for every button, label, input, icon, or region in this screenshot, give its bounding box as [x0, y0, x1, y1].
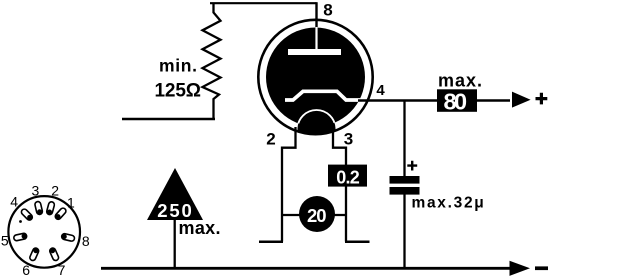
value box 0.2	[328, 165, 367, 187]
socket pin 1	[54, 207, 67, 221]
wire heater leg pin 2	[282, 127, 296, 242]
svg-text:0.2: 0.2	[336, 168, 360, 188]
wire top horizontal from resistor to tube pin 8	[210, 2, 317, 4]
svg-text:8: 8	[82, 233, 90, 249]
svg-text:4: 4	[10, 194, 18, 210]
tube heater circle (black fill clipped to bulb)	[298, 110, 336, 148]
wire pin 4 to plus output	[358, 99, 510, 101]
wire triangle to minus rail	[174, 220, 176, 268]
svg-text:2: 2	[266, 129, 275, 148]
svg-text:max.: max.	[438, 71, 482, 91]
svg-text:7: 7	[58, 262, 66, 278]
capacitor lead lower	[403, 194, 405, 268]
tube bulb outer circle	[258, 20, 372, 134]
wire heater middle horizontal	[282, 214, 346, 216]
capacitor bottom plate	[390, 187, 420, 195]
value circle 20	[299, 196, 335, 232]
tube cathode (white polyline)	[285, 91, 360, 100]
wire minus rail (bottom)	[101, 267, 510, 270]
svg-text:6: 6	[22, 262, 30, 278]
socket pin 6	[29, 247, 40, 261]
rectifier tube envelope (black disc)	[266, 28, 365, 127]
socket pin 4	[20, 208, 33, 221]
wire left stub from resistor bottom	[122, 118, 215, 121]
value box 80	[437, 89, 477, 112]
tube heater circle white arc over disc	[298, 110, 336, 148]
svg-text:max.: max.	[179, 218, 221, 238]
capacitor lead upper	[403, 100, 405, 176]
transformer HT marker triangle 250 max	[147, 168, 203, 220]
label minus terminal	[535, 266, 548, 270]
svg-text:8: 8	[323, 1, 332, 20]
tube anode bar (white)	[288, 49, 341, 55]
svg-text:4: 4	[376, 82, 385, 99]
tube anode lead inside disc (white)	[315, 27, 317, 50]
capacitor C max.32u top plate	[390, 176, 420, 184]
resistor min.125ohm	[203, 3, 221, 120]
arrow plus output	[512, 92, 531, 108]
socket pin 2	[46, 201, 55, 215]
socket pin 7	[49, 247, 60, 261]
capacitor plus mark	[407, 161, 417, 171]
svg-text:2: 2	[51, 183, 59, 199]
svg-text:20: 20	[307, 205, 327, 226]
svg-text:min.: min.	[159, 56, 197, 76]
label plus terminal	[536, 93, 548, 105]
socket key dot	[19, 220, 22, 223]
svg-text:80: 80	[444, 89, 468, 115]
octal socket base diagram	[1, 183, 90, 279]
svg-text:max.32μ: max.32μ	[412, 194, 486, 211]
socket pin 5	[13, 233, 27, 241]
svg-text:125Ω: 125Ω	[155, 80, 202, 101]
svg-text:1: 1	[67, 195, 75, 211]
svg-text:3: 3	[32, 183, 40, 199]
wire heater stub right foot	[345, 241, 370, 244]
wire heater stub left foot	[259, 241, 283, 244]
socket pin 3	[34, 201, 43, 215]
wire heater leg pin 3	[333, 127, 346, 242]
arrow minus output	[510, 261, 531, 276]
wire pin 8 lead vertical	[315, 2, 317, 28]
svg-text:5: 5	[1, 233, 9, 249]
svg-text:3: 3	[344, 129, 353, 148]
socket pin 8	[61, 233, 75, 242]
